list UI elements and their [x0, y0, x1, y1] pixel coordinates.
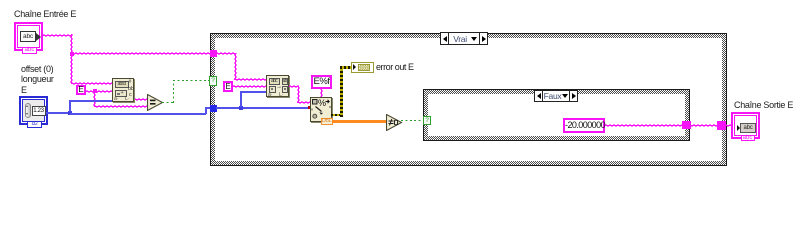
wire pink vertical to y53 — [70, 34, 73, 54]
string constant E (left) — [76, 85, 86, 95]
wire green: into case selector terminal — [173, 80, 209, 81]
blue into fn1 bottom — [69, 100, 112, 102]
blue junction dot inside case — [239, 106, 243, 110]
svg-text:%: % — [318, 98, 326, 108]
wire green: vertical up — [173, 81, 174, 103]
pink tunnel outer case right — [717, 121, 726, 130]
blue vertical up — [69, 100, 71, 112]
labels offset/longueur/E — [21, 64, 54, 95]
E%f string constant — [311, 75, 332, 89]
wire pink: from tunnel into case — [216, 52, 236, 55]
wire pink long to tunnel — [71, 52, 211, 55]
blue wire control out — [46, 112, 71, 114]
wire pink E%f down — [320, 89, 323, 98]
blue junction dot — [68, 111, 72, 115]
wire pink into fn1 top — [71, 82, 113, 85]
string constant -20.000000 — [563, 118, 605, 133]
wire pink down to fn1 — [70, 53, 73, 83]
wire pink E out — [86, 90, 112, 93]
blue jog into tunnel — [205, 107, 212, 109]
label Chaîne Entrée E — [14, 9, 76, 19]
orange wire scan to neq0 — [332, 120, 386, 123]
Scan From String fn — [310, 97, 332, 122]
fn1 String Subset — [112, 78, 134, 102]
wire pink E2 out — [233, 85, 266, 88]
wire pink junction dot — [70, 52, 74, 56]
wire green: equal? output — [162, 102, 175, 103]
wire pink down from E junction — [93, 90, 96, 106]
fn2 Match Pattern — [266, 75, 289, 97]
blue tunnel on outer case left — [210, 105, 217, 112]
green wire neq0 to inner ? — [401, 120, 423, 121]
wire blue: into fn2 offset input — [240, 91, 266, 93]
label Chaîne Sortie E — [734, 100, 793, 110]
string indicator Chaîne Sortie E — [731, 112, 760, 139]
wire pink: into fn2 string input — [234, 78, 266, 81]
label error out E — [376, 62, 414, 72]
wire pink -20 out — [605, 124, 731, 127]
wire error: into error out E — [340, 66, 351, 69]
selector label Vrai — [440, 32, 488, 45]
wire pink fn1 out to equal — [134, 98, 148, 101]
wire pink: vertical down to scan — [297, 86, 300, 103]
equal? function — [147, 94, 164, 111]
wire error: vertical up — [340, 67, 343, 117]
string constant E (inside) — [223, 81, 233, 92]
wire pink: vertical down to fn2 — [234, 53, 237, 80]
blue jog up — [205, 107, 207, 114]
junction dot E — [93, 89, 97, 93]
wire blue: vertical up to fn2 — [240, 91, 242, 107]
coercion dot — [308, 106, 311, 109]
string control Chaîne Entrée E — [14, 22, 43, 51]
inner case structure — [423, 89, 690, 141]
wire pink: control out — [43, 34, 72, 37]
outer case structure — [210, 33, 727, 167]
pink tunnel on outer case left — [210, 50, 217, 57]
wire blue: from tunnel to scan — [216, 107, 309, 109]
pink tunnel inner case right — [682, 121, 691, 129]
selector label Faux — [534, 90, 578, 102]
wire pink: into scan string input — [297, 101, 310, 104]
blue long run — [70, 113, 206, 115]
green ? selector terminal inner — [423, 116, 431, 125]
numeric control longueur E — [19, 96, 48, 125]
error out E terminal — [351, 62, 374, 73]
not equal to 0? function — [386, 114, 403, 131]
wire pink: fn2 output — [289, 85, 299, 88]
green ? selector terminal outer — [209, 76, 217, 86]
wire pink to equals lower input — [94, 105, 149, 108]
wire error: from scan output — [331, 114, 343, 117]
